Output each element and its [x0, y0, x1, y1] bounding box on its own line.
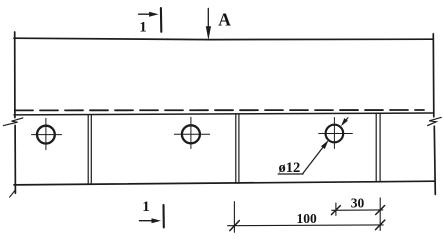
svg-text:ø12: ø12 [279, 160, 301, 176]
leader arrowhead at hole lower-left [321, 140, 329, 149]
plate top edge line [14, 113, 433, 115]
bolt hole 2 centerlines [174, 117, 209, 148]
section marker top: arrow line [139, 13, 151, 15]
dimension 30: dimension line [332, 209, 383, 211]
bolt hole 3 centerlines [319, 118, 353, 149]
section marker top: cut bar [160, 8, 163, 32]
section marker bottom: arrowhead [152, 218, 162, 223]
section marker top: arrowhead [149, 12, 159, 17]
dimension 100: right tick [376, 220, 385, 230]
right break zigzag [428, 117, 442, 125]
beam top edge line [14, 38, 433, 39]
opposite arrow tail at hole upper-right [344, 118, 348, 123]
plate joint gap 2 [236, 114, 239, 184]
dimension 30: left extension line [335, 203, 337, 215]
dimension 100: left extension line [233, 202, 235, 233]
left bottom overshoot hook [10, 191, 15, 198]
svg-text:1: 1 [142, 199, 150, 215]
dimension 100: left tick [230, 221, 240, 231]
svg-text:100: 100 [297, 211, 318, 226]
bolt hole 3 [326, 125, 344, 143]
svg-text:A: A [218, 9, 231, 29]
plate bottom edge line [14, 181, 435, 185]
hidden edge dashed line [15, 109, 424, 111]
hole size label underline [278, 173, 303, 175]
section marker bottom: arrow line [139, 220, 153, 222]
plate joint gap 3 [376, 113, 380, 182]
beam left cut edge [14, 32, 17, 193]
diameter leader line [303, 143, 327, 174]
section marker bottom: cut bar [162, 205, 164, 227]
bolt hole 1 centerlines [32, 118, 62, 149]
beam right cut edge [433, 34, 435, 195]
dimension 100: dimension line [228, 224, 384, 227]
svg-text:1: 1 [139, 20, 147, 36]
svg-text:30: 30 [351, 196, 365, 211]
plate joint gap 1 [88, 115, 91, 185]
shared right extension line [379, 198, 381, 231]
bolt hole 2 [182, 125, 200, 143]
opposite arrowhead at hole upper-right [341, 118, 348, 126]
left break zigzag [3, 118, 22, 126]
bolt hole 1 [37, 126, 55, 144]
dimension 30: right tick [376, 206, 385, 215]
view arrow A shaft [207, 8, 209, 28]
view arrow A head [206, 26, 211, 40]
dimension 30: left tick [331, 206, 340, 215]
